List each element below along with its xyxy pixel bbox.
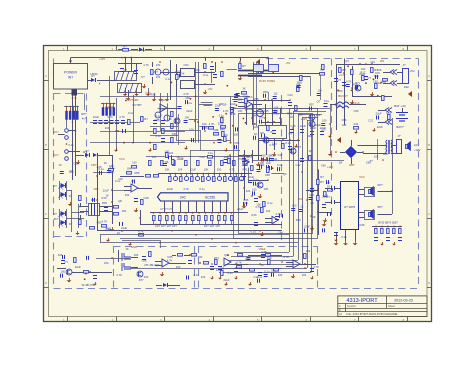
svg-text:D: D bbox=[45, 282, 47, 285]
svg-text:0.1u: 0.1u bbox=[155, 134, 161, 138]
svg-text:C88: C88 bbox=[155, 118, 160, 122]
svg-text:R55: R55 bbox=[254, 97, 259, 101]
svg-text:104: 104 bbox=[386, 111, 391, 115]
svg-text:C47: C47 bbox=[278, 153, 283, 157]
svg-text:104: 104 bbox=[178, 168, 183, 172]
svg-text:4.7K: 4.7K bbox=[107, 115, 113, 119]
svg-text:10K: 10K bbox=[264, 187, 269, 191]
svg-text:100: 100 bbox=[125, 193, 130, 197]
svg-text:R49: R49 bbox=[296, 218, 301, 222]
svg-text:4313-IPORT: 4313-IPORT bbox=[346, 298, 378, 304]
svg-text:0.1u: 0.1u bbox=[257, 275, 263, 279]
svg-text:C45: C45 bbox=[264, 109, 269, 113]
svg-text:100: 100 bbox=[252, 187, 257, 191]
svg-text:2012-03-23: 2012-03-23 bbox=[394, 298, 413, 302]
svg-text:100: 100 bbox=[104, 261, 109, 265]
svg-text:C84: C84 bbox=[278, 231, 283, 235]
svg-text:DB?: DB? bbox=[349, 163, 355, 167]
svg-text:R39: R39 bbox=[102, 201, 107, 205]
svg-text:C26: C26 bbox=[253, 125, 258, 129]
svg-text:0.1u: 0.1u bbox=[199, 187, 205, 191]
svg-text:C15: C15 bbox=[248, 155, 253, 159]
svg-text:0.1u: 0.1u bbox=[128, 111, 134, 115]
svg-text:W-48L?08: W-48L?08 bbox=[82, 283, 95, 287]
svg-text:100: 100 bbox=[220, 267, 225, 271]
svg-text:C98: C98 bbox=[366, 161, 371, 165]
svg-text:4.7K: 4.7K bbox=[236, 261, 242, 265]
svg-text:22uF: 22uF bbox=[167, 187, 173, 191]
svg-text:104: 104 bbox=[302, 273, 307, 277]
svg-text:104: 104 bbox=[58, 253, 63, 257]
svg-text:C21: C21 bbox=[368, 119, 373, 123]
svg-text:22uF: 22uF bbox=[271, 157, 277, 161]
svg-text:22uF: 22uF bbox=[230, 102, 236, 106]
svg-text:SC256: SC256 bbox=[205, 196, 215, 200]
svg-text:0.1u: 0.1u bbox=[115, 179, 121, 183]
svg-text:Symbol: Symbol bbox=[347, 304, 356, 308]
svg-text:10K: 10K bbox=[374, 155, 379, 159]
svg-text:100: 100 bbox=[176, 265, 181, 269]
svg-text:104: 104 bbox=[156, 75, 161, 79]
svg-text:104: 104 bbox=[152, 155, 157, 159]
svg-text:R62: R62 bbox=[106, 226, 111, 230]
svg-text:4.7K: 4.7K bbox=[116, 273, 122, 277]
svg-text:Q8: Q8 bbox=[118, 199, 122, 203]
svg-text:100: 100 bbox=[134, 253, 139, 257]
svg-text:100: 100 bbox=[60, 270, 65, 274]
svg-text:4.7K: 4.7K bbox=[119, 115, 125, 119]
svg-text:BAT?: BAT? bbox=[396, 125, 404, 129]
svg-text:J?: J? bbox=[402, 63, 406, 67]
svg-text:VCC: VCC bbox=[145, 91, 151, 95]
svg-text:100: 100 bbox=[246, 189, 251, 193]
svg-text:1K: 1K bbox=[310, 201, 313, 205]
svg-text:C?: C? bbox=[367, 76, 371, 80]
svg-text:100: 100 bbox=[217, 168, 222, 172]
svg-text:C56: C56 bbox=[354, 109, 359, 113]
svg-text:4.7K: 4.7K bbox=[183, 92, 189, 96]
svg-text:104: 104 bbox=[267, 256, 272, 260]
svg-text:W-IFI PCBA: W-IFI PCBA bbox=[259, 79, 275, 83]
svg-text:10K: 10K bbox=[122, 209, 127, 213]
svg-text:100: 100 bbox=[256, 203, 261, 207]
svg-text:22uF: 22uF bbox=[75, 265, 81, 269]
svg-text:10K: 10K bbox=[266, 161, 271, 165]
svg-text:Sheet: Sheet bbox=[388, 304, 395, 308]
svg-text:100: 100 bbox=[298, 113, 303, 117]
svg-text:24C: 24C bbox=[180, 196, 187, 200]
svg-text:VCC: VCC bbox=[119, 157, 125, 161]
svg-text:100: 100 bbox=[342, 123, 347, 127]
svg-text:+5V: +5V bbox=[208, 87, 213, 91]
svg-text:R45: R45 bbox=[360, 223, 365, 227]
svg-text:C88: C88 bbox=[213, 128, 218, 132]
svg-text:R73: R73 bbox=[214, 256, 219, 260]
svg-text:C? C? C?: C? C? C? bbox=[160, 207, 172, 211]
svg-text:1K: 1K bbox=[242, 87, 245, 91]
svg-text:22uF: 22uF bbox=[223, 278, 229, 282]
svg-text:0.1u: 0.1u bbox=[310, 187, 316, 191]
svg-text:VCC: VCC bbox=[359, 175, 365, 179]
svg-text:BUCK?: BUCK? bbox=[338, 94, 348, 98]
svg-text:R?: R? bbox=[320, 180, 324, 184]
svg-text:10K: 10K bbox=[165, 168, 170, 172]
svg-text:SP?: SP? bbox=[377, 183, 383, 187]
svg-text:104: 104 bbox=[306, 249, 311, 253]
svg-text:FB?: FB? bbox=[94, 187, 99, 191]
svg-text:D: D bbox=[428, 282, 430, 285]
svg-text:0.1u: 0.1u bbox=[285, 141, 291, 145]
svg-text:1K: 1K bbox=[168, 117, 171, 121]
svg-text:Q2: Q2 bbox=[274, 92, 278, 96]
svg-text:BAT +3V: BAT +3V bbox=[394, 104, 406, 108]
svg-text:22uF: 22uF bbox=[103, 188, 109, 192]
svg-text:22uF: 22uF bbox=[93, 115, 99, 119]
svg-text:+5V: +5V bbox=[409, 69, 414, 73]
svg-text:100: 100 bbox=[317, 89, 322, 93]
svg-text:0.1u: 0.1u bbox=[272, 141, 278, 145]
svg-text:AC?: AC? bbox=[53, 130, 59, 134]
svg-text:R39: R39 bbox=[381, 80, 386, 84]
svg-text:R15: R15 bbox=[252, 213, 257, 217]
svg-text:+5V: +5V bbox=[298, 197, 303, 201]
svg-text:104: 104 bbox=[201, 275, 206, 279]
svg-text:SP?: SP? bbox=[377, 205, 383, 209]
svg-text:100: 100 bbox=[278, 273, 283, 277]
svg-text:0.1u: 0.1u bbox=[187, 101, 193, 105]
svg-text:C?: C? bbox=[337, 78, 341, 82]
svg-text:C?: C? bbox=[123, 68, 127, 72]
svg-text:1K: 1K bbox=[300, 205, 303, 209]
svg-text:Q4: Q4 bbox=[339, 160, 343, 164]
svg-text:R22: R22 bbox=[404, 85, 409, 89]
svg-text:IN?: IN? bbox=[68, 76, 73, 80]
svg-text:22uF: 22uF bbox=[218, 122, 224, 126]
svg-text:0.1u: 0.1u bbox=[324, 99, 330, 103]
svg-text:C32: C32 bbox=[353, 122, 358, 126]
svg-text:R?: R? bbox=[320, 175, 324, 179]
svg-text:0.1u: 0.1u bbox=[208, 151, 214, 155]
svg-text:22uF: 22uF bbox=[359, 72, 365, 76]
svg-text:10K: 10K bbox=[252, 114, 257, 118]
svg-text:R41: R41 bbox=[243, 168, 248, 172]
svg-text:R?: R? bbox=[123, 44, 127, 48]
svg-text:22uF: 22uF bbox=[215, 104, 221, 108]
svg-text:~12V: ~12V bbox=[413, 148, 420, 152]
svg-text:J?: J? bbox=[397, 134, 401, 138]
svg-text:R77: R77 bbox=[139, 278, 144, 282]
svg-text:D?: D? bbox=[69, 222, 73, 226]
svg-text:+3.3V: +3.3V bbox=[339, 73, 346, 77]
svg-text:0.1u: 0.1u bbox=[341, 235, 347, 239]
svg-text:100: 100 bbox=[261, 154, 266, 158]
svg-text:U? 1875: U? 1875 bbox=[344, 205, 356, 209]
svg-text:C68: C68 bbox=[265, 173, 270, 177]
svg-text:1K: 1K bbox=[327, 185, 330, 189]
svg-text:RP?: RP? bbox=[81, 112, 87, 116]
svg-text:100: 100 bbox=[243, 201, 248, 205]
svg-text:4.7K: 4.7K bbox=[283, 255, 289, 259]
svg-text:4.7K: 4.7K bbox=[102, 219, 108, 223]
svg-text:C44: C44 bbox=[288, 93, 293, 97]
svg-text:100: 100 bbox=[156, 63, 161, 67]
svg-text:22uF: 22uF bbox=[190, 168, 196, 172]
svg-text:B700 5B70 05B7: B700 5B70 05B7 bbox=[378, 221, 398, 225]
svg-text:+3.3V: +3.3V bbox=[177, 157, 184, 161]
svg-text:D?: D? bbox=[85, 149, 89, 153]
svg-text:104: 104 bbox=[105, 126, 110, 130]
svg-text:0.1u: 0.1u bbox=[267, 201, 273, 205]
svg-text:C19: C19 bbox=[74, 161, 79, 165]
svg-text:4.7K: 4.7K bbox=[183, 187, 189, 191]
svg-text:22uF: 22uF bbox=[300, 124, 306, 128]
svg-text:R93: R93 bbox=[150, 92, 155, 96]
svg-text:1K: 1K bbox=[104, 161, 107, 165]
svg-text:3K?: 3K? bbox=[54, 217, 59, 221]
svg-text:4.7K: 4.7K bbox=[138, 229, 144, 233]
svg-text:22uF: 22uF bbox=[186, 109, 192, 113]
svg-text:C96: C96 bbox=[271, 269, 276, 273]
svg-text:Q7: Q7 bbox=[316, 99, 320, 103]
svg-text:+12V: +12V bbox=[301, 117, 307, 121]
svg-text:Q5: Q5 bbox=[260, 131, 264, 135]
svg-text:104: 104 bbox=[189, 127, 194, 131]
svg-text:104: 104 bbox=[184, 115, 189, 119]
svg-text:C19: C19 bbox=[200, 155, 205, 159]
svg-text:1K: 1K bbox=[106, 193, 109, 197]
svg-text:D?: D? bbox=[53, 184, 57, 188]
svg-text:R11: R11 bbox=[383, 152, 388, 156]
svg-text:R?: R? bbox=[144, 117, 148, 121]
svg-text:Q4: Q4 bbox=[345, 59, 349, 63]
svg-text:VIN: VIN bbox=[380, 59, 384, 63]
svg-text:VCC: VCC bbox=[247, 95, 253, 99]
svg-text:Q2: Q2 bbox=[161, 98, 165, 102]
svg-text:10K: 10K bbox=[127, 167, 132, 171]
svg-text:100: 100 bbox=[361, 67, 366, 71]
svg-text:100: 100 bbox=[321, 128, 326, 132]
svg-text:R81: R81 bbox=[297, 81, 302, 85]
svg-text:D?: D? bbox=[53, 212, 57, 216]
svg-text:R21: R21 bbox=[374, 74, 379, 78]
svg-text:0.1u: 0.1u bbox=[253, 178, 259, 182]
svg-text:10K: 10K bbox=[238, 109, 243, 113]
svg-text:104: 104 bbox=[169, 151, 174, 155]
svg-text:4.7K: 4.7K bbox=[313, 265, 319, 269]
svg-text:100: 100 bbox=[322, 119, 327, 123]
svg-text:C?: C? bbox=[64, 260, 68, 264]
svg-text:1K: 1K bbox=[69, 169, 72, 173]
svg-text:1K: 1K bbox=[290, 115, 293, 119]
svg-text:22uF: 22uF bbox=[247, 107, 253, 111]
svg-text:104: 104 bbox=[266, 209, 271, 213]
svg-text:C45: C45 bbox=[97, 165, 102, 169]
svg-text:L?: L? bbox=[90, 72, 94, 76]
svg-text:C96: C96 bbox=[341, 118, 346, 122]
svg-text:0.1u: 0.1u bbox=[251, 230, 257, 234]
svg-text:R53: R53 bbox=[263, 90, 268, 94]
svg-text:1K: 1K bbox=[125, 247, 128, 251]
svg-text:1K: 1K bbox=[308, 149, 311, 153]
svg-text:C81: C81 bbox=[373, 80, 378, 84]
svg-text:File: 4313-IPORT-MAIN-PCB FIL: File: 4313-IPORT-MAIN-PCB FILENAME bbox=[347, 312, 398, 316]
svg-text:100: 100 bbox=[307, 134, 312, 138]
svg-text:104: 104 bbox=[259, 116, 264, 120]
svg-text:Q?: Q? bbox=[297, 145, 301, 149]
svg-text:4.7K: 4.7K bbox=[167, 258, 173, 262]
svg-text:0.1u: 0.1u bbox=[239, 178, 245, 182]
svg-text:4.7K: 4.7K bbox=[275, 212, 281, 216]
svg-text:+5V: +5V bbox=[238, 157, 243, 161]
svg-text:104: 104 bbox=[274, 106, 279, 110]
svg-text:22uF: 22uF bbox=[322, 195, 328, 199]
svg-text:C28: C28 bbox=[144, 196, 149, 200]
svg-text:AC?: AC? bbox=[53, 153, 59, 157]
svg-text:22uF: 22uF bbox=[304, 225, 310, 229]
svg-text:100: 100 bbox=[292, 203, 297, 207]
svg-text:0.1u: 0.1u bbox=[110, 166, 116, 170]
svg-text:10K: 10K bbox=[204, 168, 209, 172]
svg-text:C: C bbox=[45, 213, 47, 216]
svg-text:4.7K: 4.7K bbox=[209, 122, 215, 126]
svg-text:R?: R? bbox=[242, 64, 246, 68]
svg-text:C90: C90 bbox=[321, 164, 326, 168]
svg-text:+12V: +12V bbox=[99, 57, 105, 61]
svg-text:100: 100 bbox=[198, 255, 203, 259]
svg-text:104: 104 bbox=[316, 113, 321, 117]
svg-text:0.1u: 0.1u bbox=[277, 163, 283, 167]
svg-text:1K: 1K bbox=[181, 72, 184, 76]
svg-text:100: 100 bbox=[234, 132, 239, 136]
svg-text:1K: 1K bbox=[260, 263, 263, 267]
svg-text:K?: K? bbox=[141, 75, 145, 79]
svg-text:4.7K: 4.7K bbox=[143, 63, 149, 67]
svg-text:4.7K: 4.7K bbox=[223, 109, 229, 113]
svg-text:4.7K: 4.7K bbox=[229, 168, 235, 172]
svg-text:22uF: 22uF bbox=[121, 226, 127, 230]
svg-text:R56: R56 bbox=[352, 82, 357, 86]
svg-text:GND: GND bbox=[131, 245, 137, 249]
svg-text:10K: 10K bbox=[195, 68, 200, 72]
svg-text:POWER: POWER bbox=[64, 71, 77, 75]
svg-text:100: 100 bbox=[132, 161, 137, 165]
svg-text:VREF: VREF bbox=[259, 247, 266, 251]
svg-text:104: 104 bbox=[370, 60, 375, 64]
svg-text:1K: 1K bbox=[312, 215, 315, 219]
svg-text:100: 100 bbox=[144, 275, 149, 279]
svg-text:22uF: 22uF bbox=[377, 125, 383, 129]
svg-text:+12V: +12V bbox=[327, 165, 333, 169]
svg-text:R57: R57 bbox=[309, 102, 314, 106]
svg-text:1K: 1K bbox=[229, 112, 232, 116]
svg-text:0.1u: 0.1u bbox=[227, 271, 233, 275]
svg-text:1K: 1K bbox=[58, 163, 61, 167]
svg-text:22uF: 22uF bbox=[237, 207, 243, 211]
svg-text:C12: C12 bbox=[296, 163, 301, 167]
svg-text:4.7K: 4.7K bbox=[202, 126, 208, 130]
svg-text:10K: 10K bbox=[105, 106, 110, 110]
svg-text:0.1u: 0.1u bbox=[203, 73, 209, 77]
svg-text:R?: R? bbox=[342, 68, 346, 72]
svg-text:C: C bbox=[428, 213, 430, 216]
svg-text:x: x bbox=[99, 82, 101, 86]
svg-text:R40: R40 bbox=[220, 128, 225, 132]
svg-text:C54: C54 bbox=[184, 63, 189, 67]
svg-text:0.1u: 0.1u bbox=[264, 269, 270, 273]
svg-text:D?: D? bbox=[69, 194, 73, 198]
svg-text:1K: 1K bbox=[254, 132, 257, 136]
svg-text:C9: C9 bbox=[288, 132, 292, 136]
svg-text:22uF: 22uF bbox=[310, 126, 316, 130]
svg-text:100: 100 bbox=[309, 193, 314, 197]
svg-text:R55: R55 bbox=[134, 171, 139, 175]
svg-text:0.1u: 0.1u bbox=[193, 273, 199, 277]
svg-text:C68: C68 bbox=[142, 259, 147, 263]
svg-text:C50: C50 bbox=[234, 141, 239, 145]
svg-text:4x?: 4x? bbox=[82, 117, 87, 121]
svg-text:100: 100 bbox=[202, 122, 207, 126]
svg-text:+5V: +5V bbox=[286, 61, 291, 65]
svg-text:Q9: Q9 bbox=[223, 103, 227, 107]
svg-text:4.7K: 4.7K bbox=[346, 80, 352, 84]
svg-text:10K: 10K bbox=[185, 96, 190, 100]
svg-text:0.1u: 0.1u bbox=[68, 143, 74, 147]
svg-text:22uF: 22uF bbox=[375, 111, 381, 115]
